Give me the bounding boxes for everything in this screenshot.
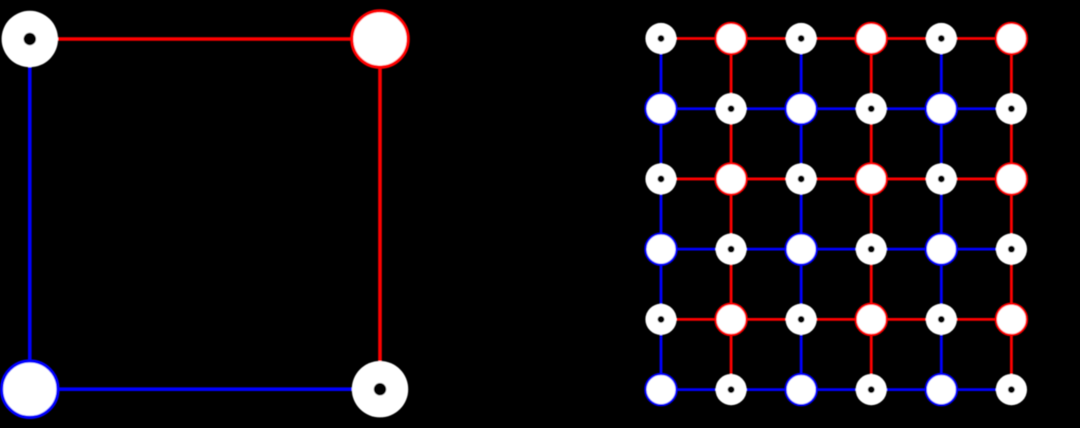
node (2,0): dotted vertex bbox=[645, 163, 676, 194]
wire: lattice horizontal edge row 1 col 0-1 (blue) bbox=[661, 107, 731, 110]
node (1,2): blue vertex bbox=[786, 93, 817, 124]
node (4,4): dotted vertex bbox=[926, 304, 957, 335]
wire: lattice vertical edge col 1 row 2-3 (red) bbox=[730, 179, 733, 249]
wire: lattice vertical edge col 0 row 2-3 (blue) bbox=[660, 179, 663, 249]
wire: lattice vertical edge col 4 row 0-1 (blue) bbox=[940, 39, 943, 109]
node (5,1): dotted vertex bbox=[715, 374, 746, 405]
wire: lattice horizontal edge row 5 col 1-2 (blue) bbox=[731, 388, 801, 391]
wire: lattice horizontal edge row 2 col 2-3 (red) bbox=[801, 178, 871, 181]
node (4,5): red vertex bbox=[996, 304, 1027, 335]
wire: lattice horizontal edge row 3 col 2-3 (blue) bbox=[801, 248, 871, 251]
wire: lattice vertical edge col 5 row 3-4 (red) bbox=[1010, 249, 1013, 319]
node (3,3): dotted vertex bbox=[856, 234, 887, 265]
node (4,1): red vertex bbox=[715, 304, 746, 335]
wire: lattice vertical edge col 4 row 1-2 (blue) bbox=[940, 109, 943, 179]
wire: lattice vertical edge col 2 row 0-1 (blue) bbox=[800, 39, 803, 109]
wire: lattice vertical edge col 2 row 2-3 (blue) bbox=[800, 179, 803, 249]
wire: unit cell right edge (red, column type) bbox=[378, 39, 382, 389]
wire: lattice horizontal edge row 2 col 3-4 (red) bbox=[871, 178, 941, 181]
wire: lattice horizontal edge row 5 col 4-5 (blue) bbox=[941, 388, 1011, 391]
wire: lattice horizontal edge row 4 col 3-4 (red) bbox=[871, 318, 941, 321]
wire: lattice horizontal edge row 4 col 0-1 (red) bbox=[661, 318, 731, 321]
wire: lattice vertical edge col 4 row 3-4 (blue) bbox=[940, 249, 943, 319]
node (3,1): dotted vertex bbox=[715, 234, 746, 265]
node (0,5): red vertex bbox=[996, 23, 1027, 54]
node (0,3): red vertex bbox=[856, 23, 887, 54]
wire: unit cell bottom edge (blue, row type) bbox=[30, 387, 380, 391]
wire: lattice vertical edge col 0 row 4-5 (blue) bbox=[660, 319, 663, 389]
wire: lattice vertical edge col 4 row 2-3 (blue) bbox=[940, 179, 943, 249]
node (3,4): blue vertex bbox=[926, 234, 957, 265]
node (5,3): dotted vertex bbox=[856, 374, 887, 405]
wire: lattice horizontal edge row 1 col 3-4 (blue) bbox=[871, 107, 941, 110]
wire: lattice vertical edge col 5 row 1-2 (red) bbox=[1010, 109, 1013, 179]
wire: lattice vertical edge col 3 row 0-1 (red) bbox=[870, 39, 873, 109]
wire: lattice vertical edge col 4 row 4-5 (blue) bbox=[940, 319, 943, 389]
node (5,4): blue vertex bbox=[926, 374, 957, 405]
wire: lattice vertical edge col 5 row 0-1 (red) bbox=[1010, 39, 1013, 109]
wire: lattice vertical edge col 0 row 3-4 (blue) bbox=[660, 249, 663, 319]
node (3,0): blue vertex bbox=[645, 234, 676, 265]
wire: unit cell left edge (blue, column type) bbox=[28, 39, 32, 389]
node (3,2): blue vertex bbox=[786, 234, 817, 265]
wire: lattice horizontal edge row 2 col 0-1 (red) bbox=[661, 178, 731, 181]
wire: unit cell top edge (red, row type) bbox=[30, 37, 380, 41]
wire: lattice horizontal edge row 0 col 3-4 (red) bbox=[871, 37, 941, 40]
node (3,5): dotted vertex bbox=[996, 234, 1027, 265]
wire: lattice vertical edge col 2 row 4-5 (blue) bbox=[800, 319, 803, 389]
node D: bottom-right dotted vertex bbox=[352, 361, 408, 417]
node (2,3): red vertex bbox=[856, 163, 887, 194]
node (1,3): dotted vertex bbox=[856, 93, 887, 124]
wire: lattice horizontal edge row 2 col 4-5 (red) bbox=[941, 178, 1011, 181]
node (1,0): blue vertex bbox=[645, 93, 676, 124]
node (1,1): dotted vertex bbox=[715, 93, 746, 124]
node (2,4): dotted vertex bbox=[926, 163, 957, 194]
wire: lattice vertical edge col 3 row 3-4 (red) bbox=[870, 249, 873, 319]
wire: lattice horizontal edge row 3 col 3-4 (blue) bbox=[871, 248, 941, 251]
wire: lattice horizontal edge row 1 col 4-5 (blue) bbox=[941, 107, 1011, 110]
node (2,1): red vertex bbox=[715, 163, 746, 194]
wire: lattice vertical edge col 3 row 4-5 (red) bbox=[870, 319, 873, 389]
wire: lattice horizontal edge row 0 col 1-2 (red) bbox=[731, 37, 801, 40]
node B: top-right red vertex bbox=[352, 11, 408, 67]
node (0,0): dotted vertex bbox=[645, 23, 676, 54]
node (2,5): red vertex bbox=[996, 163, 1027, 194]
node (4,0): dotted vertex bbox=[645, 304, 676, 335]
wire: lattice horizontal edge row 3 col 1-2 (blue) bbox=[731, 248, 801, 251]
wire: lattice vertical edge col 0 row 1-2 (blue) bbox=[660, 109, 663, 179]
node (1,5): dotted vertex bbox=[996, 93, 1027, 124]
wire: lattice horizontal edge row 0 col 0-1 (red) bbox=[661, 37, 731, 40]
node (4,2): dotted vertex bbox=[786, 304, 817, 335]
node (4,3): red vertex bbox=[856, 304, 887, 335]
wire: lattice horizontal edge row 1 col 1-2 (blue) bbox=[731, 107, 801, 110]
node (0,1): red vertex bbox=[715, 23, 746, 54]
node A: top-left dotted vertex bbox=[2, 11, 58, 67]
node (5,5): dotted vertex bbox=[996, 374, 1027, 405]
wire: lattice vertical edge col 5 row 4-5 (red) bbox=[1010, 319, 1013, 389]
wire: lattice vertical edge col 5 row 2-3 (red) bbox=[1010, 179, 1013, 249]
wire: lattice vertical edge col 1 row 0-1 (red) bbox=[730, 39, 733, 109]
wire: lattice horizontal edge row 5 col 0-1 (blue) bbox=[661, 388, 731, 391]
wire: lattice vertical edge col 2 row 1-2 (blue) bbox=[800, 109, 803, 179]
node (5,0): blue vertex bbox=[645, 374, 676, 405]
wire: lattice horizontal edge row 3 col 4-5 (blue) bbox=[941, 248, 1011, 251]
wire: lattice horizontal edge row 2 col 1-2 (red) bbox=[731, 178, 801, 181]
wire: lattice vertical edge col 1 row 3-4 (red) bbox=[730, 249, 733, 319]
wire: lattice horizontal edge row 5 col 2-3 (blue) bbox=[801, 388, 871, 391]
wire: lattice horizontal edge row 1 col 2-3 (blue) bbox=[801, 107, 871, 110]
node (1,4): blue vertex bbox=[926, 93, 957, 124]
wire: lattice vertical edge col 2 row 3-4 (blue) bbox=[800, 249, 803, 319]
wire: lattice vertical edge col 3 row 1-2 (red) bbox=[870, 109, 873, 179]
node (2,2): dotted vertex bbox=[786, 163, 817, 194]
wire: lattice vertical edge col 1 row 1-2 (red) bbox=[730, 109, 733, 179]
wire: lattice horizontal edge row 4 col 2-3 (red) bbox=[801, 318, 871, 321]
wire: lattice horizontal edge row 0 col 2-3 (red) bbox=[801, 37, 871, 40]
node (5,2): blue vertex bbox=[786, 374, 817, 405]
node (0,2): dotted vertex bbox=[786, 23, 817, 54]
wire: lattice vertical edge col 1 row 4-5 (red) bbox=[730, 319, 733, 389]
wire: lattice horizontal edge row 4 col 4-5 (red) bbox=[941, 318, 1011, 321]
wire: lattice horizontal edge row 3 col 0-1 (blue) bbox=[661, 248, 731, 251]
wire: lattice horizontal edge row 5 col 3-4 (blue) bbox=[871, 388, 941, 391]
wire: lattice horizontal edge row 0 col 4-5 (red) bbox=[941, 37, 1011, 40]
wire: lattice vertical edge col 0 row 0-1 (blue) bbox=[660, 39, 663, 109]
node C: bottom-left blue vertex bbox=[2, 361, 58, 417]
wire: lattice horizontal edge row 4 col 1-2 (red) bbox=[731, 318, 801, 321]
wire: lattice vertical edge col 3 row 2-3 (red) bbox=[870, 179, 873, 249]
node (0,4): dotted vertex bbox=[926, 23, 957, 54]
